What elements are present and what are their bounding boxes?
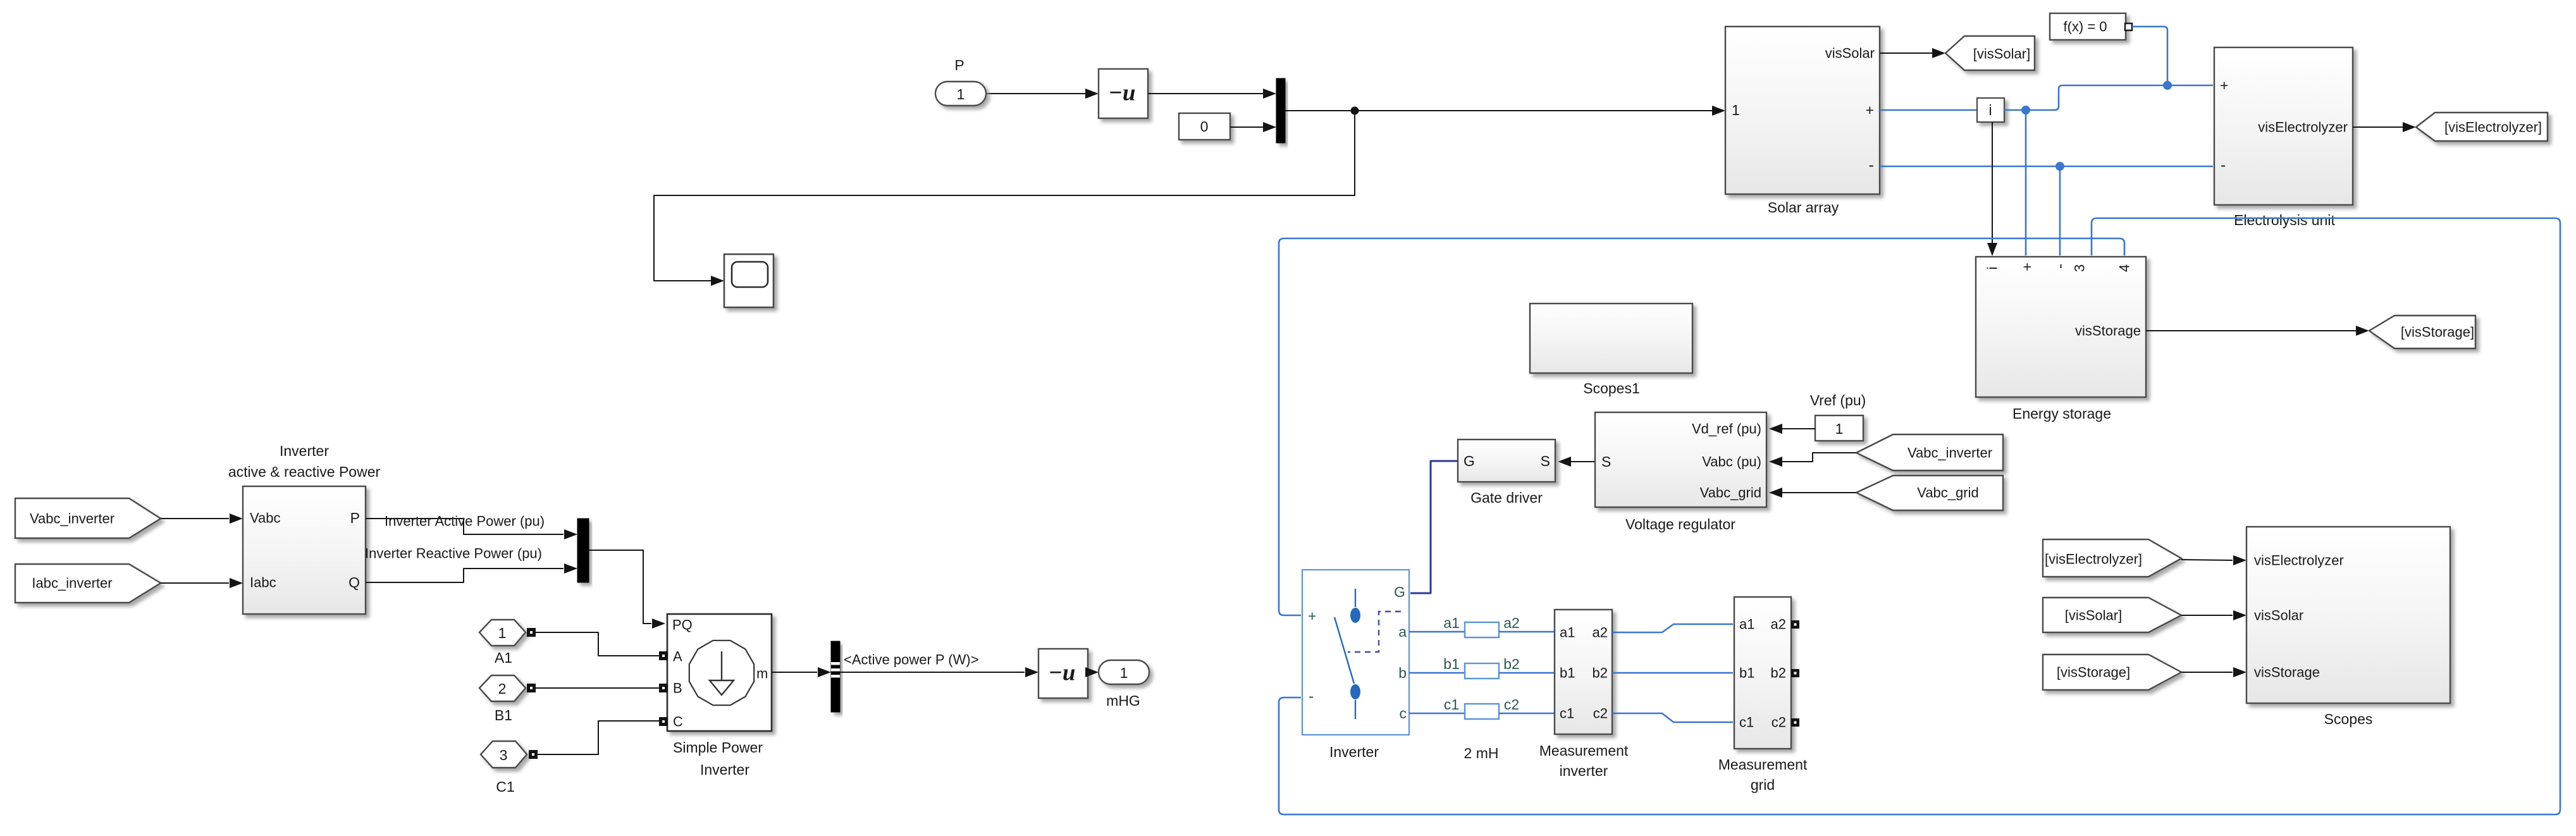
- wire inductor a to measurement inverter: [1499, 631, 1555, 633]
- svg-text:Electrolysis unit: Electrolysis unit: [2234, 212, 2335, 228]
- wire B1 to SPI B: [535, 687, 663, 689]
- svg-text:i: i: [1988, 102, 1992, 118]
- block Measurement inverter: [1555, 610, 1612, 734]
- wire P inport to gain: [986, 93, 1097, 94]
- wire Vabc_inverter to block: [161, 518, 229, 519]
- inductor b 2mH: [1465, 663, 1499, 679]
- svg-text:Iabc: Iabc: [250, 575, 276, 591]
- svg-text:−u: −u: [1049, 660, 1076, 686]
- wire constant to mux: [1230, 126, 1275, 128]
- svg-text:1: 1: [1732, 102, 1740, 118]
- block Inverter: [1302, 570, 1409, 735]
- wire m to demux: [772, 672, 817, 673]
- svg-text:S: S: [1541, 453, 1550, 469]
- goto tag [visSolar]: [1945, 36, 2035, 70]
- svg-text:Vabc_grid: Vabc_grid: [1700, 485, 1761, 501]
- wire inverter c to inductor: [1409, 713, 1465, 715]
- wire Vref to Vd_ref: [1782, 428, 1815, 429]
- svg-text:-: -: [2221, 156, 2226, 174]
- svg-text:Vabc_grid: Vabc_grid: [1917, 485, 1978, 501]
- svg-text:c1: c1: [1560, 706, 1574, 722]
- block Simple Power Inverter: [667, 614, 772, 731]
- svg-text:c2: c2: [1593, 706, 1608, 722]
- from tag Iabc_inverter: [15, 564, 161, 603]
- svg-text:visElectrolyzer: visElectrolyzer: [2254, 553, 2344, 569]
- wire inductor b to measurement inverter: [1499, 672, 1555, 674]
- svg-text:B1: B1: [495, 707, 512, 723]
- svg-text:+: +: [1308, 608, 1316, 624]
- svg-text:a2: a2: [1503, 615, 1520, 631]
- svg-text:mHG: mHG: [1106, 692, 1140, 709]
- svg-text:-: -: [2051, 264, 2069, 269]
- wire visSolar to goto: [1880, 52, 1933, 54]
- constant Vref 1: [1815, 415, 1863, 441]
- svg-text:Inverter: Inverter: [280, 443, 329, 459]
- svg-text:a1: a1: [1560, 625, 1575, 641]
- svg-text:Q: Q: [348, 574, 360, 591]
- svg-text:PQ: PQ: [672, 617, 693, 633]
- wire inductor c to measurement inverter: [1499, 713, 1555, 715]
- inport P (1): [935, 82, 986, 106]
- block Energy storage: [1976, 257, 2146, 397]
- mux left: [577, 519, 589, 582]
- wire junction to scope: [654, 111, 1355, 281]
- svg-text:4: 4: [2117, 264, 2133, 272]
- svg-text:C1: C1: [496, 778, 514, 795]
- svg-text:a2: a2: [1771, 617, 1786, 632]
- from tag [visSolar]: [2043, 598, 2181, 632]
- wire plus junction down to storage port: [2025, 110, 2027, 255]
- wire Q output to mux: [366, 569, 564, 582]
- svg-text:Scopes1: Scopes1: [1583, 380, 1640, 396]
- svg-text:P: P: [954, 57, 964, 73]
- svg-text:[visStorage]: [visStorage]: [2057, 665, 2130, 680]
- svg-text:Inverter: Inverter: [1329, 744, 1379, 760]
- wire mux to Solar array: [1285, 110, 1724, 111]
- wire i measurement to storage: [1992, 122, 1993, 253]
- svg-text:b1: b1: [1443, 656, 1460, 672]
- svg-text:b2: b2: [1771, 665, 1786, 681]
- block Electrolysis unit: [2214, 47, 2353, 205]
- inverter gate dashed line: [1348, 612, 1401, 652]
- wire visSolar tag to Scopes: [2181, 615, 2233, 616]
- from tag [visElectrolyzer]: [2043, 539, 2181, 577]
- svg-text:Vabc: Vabc: [250, 510, 281, 526]
- svg-text:2 mH: 2 mH: [1464, 745, 1499, 761]
- wire visStorage to goto: [2146, 330, 2357, 331]
- svg-text:visElectrolyzer: visElectrolyzer: [2258, 120, 2348, 135]
- svg-text:Voltage regulator: Voltage regulator: [1625, 516, 1735, 532]
- block Scopes1: [1530, 304, 1692, 373]
- block Gate driver: [1458, 440, 1555, 482]
- svg-text:b2: b2: [1593, 665, 1608, 681]
- wire solar minus to electrolyzer: [1880, 166, 2213, 168]
- wire gain to mux: [1148, 93, 1275, 94]
- big loop wire storage port4 to inverter plus: [1279, 238, 2124, 615]
- goto tag [visElectrolyzer]: [2416, 113, 2548, 141]
- wire Vabc_grid tag to regulator: [1782, 492, 1856, 493]
- svg-text:m: m: [756, 666, 768, 682]
- svg-text:-: -: [1869, 156, 1874, 174]
- junction node: [1351, 107, 1359, 115]
- svg-text:c2: c2: [1504, 696, 1519, 713]
- svg-text:G: G: [1394, 584, 1405, 600]
- svg-text:[visElectrolyzer]: [visElectrolyzer]: [2045, 551, 2142, 567]
- svg-text:Simple Power: Simple Power: [673, 739, 763, 756]
- svg-text:c1: c1: [1444, 696, 1459, 713]
- wire Vabc_inverter tag to Vabc pu: [1782, 453, 1856, 462]
- inductor a 2mH: [1465, 622, 1499, 637]
- wire P output to mux: [366, 519, 564, 534]
- svg-text:Inverter: Inverter: [700, 761, 749, 778]
- svg-text:b1: b1: [1739, 665, 1754, 681]
- svg-text:1: 1: [498, 625, 507, 641]
- svg-text:inverter: inverter: [1560, 763, 1608, 779]
- wire gate driver G to inverter gate: [1410, 461, 1458, 593]
- svg-text:-: -: [1309, 687, 1314, 705]
- big loop wire inverter minus to storage port3: [1279, 218, 2560, 814]
- svg-text:0: 0: [1200, 118, 1209, 135]
- block Inverter active & reactive Power: [243, 486, 366, 614]
- svg-text:A: A: [673, 649, 682, 665]
- wire demux to gain mHG: [840, 672, 1025, 673]
- svg-text:c: c: [1400, 705, 1407, 722]
- svg-text:P: P: [350, 510, 360, 526]
- block Solar array: [1725, 27, 1880, 194]
- wire visStorage tag to Scopes: [2181, 672, 2233, 673]
- wire visElectrolyzer to goto: [2353, 126, 2403, 128]
- block Measurement grid: [1734, 597, 1791, 749]
- wire voltage regulator S to gate driver: [1569, 461, 1595, 462]
- junction plus to storage: [2021, 106, 2030, 114]
- svg-text:b2: b2: [1503, 656, 1520, 672]
- svg-text:Vabc (pu): Vabc (pu): [1702, 454, 1761, 470]
- svg-text:3: 3: [2072, 264, 2088, 272]
- svg-text:a1: a1: [1443, 615, 1460, 631]
- svg-text:+: +: [2019, 262, 2035, 271]
- svg-text:active & reactive Power: active & reactive Power: [228, 464, 381, 480]
- svg-text:[visSolar]: [visSolar]: [2065, 608, 2122, 624]
- inductor c 2mH: [1465, 704, 1499, 719]
- svg-text:Vd_ref (pu): Vd_ref (pu): [1692, 421, 1761, 437]
- from tag [visStorage]: [2043, 655, 2181, 690]
- block f(x)=0: [2050, 13, 2126, 40]
- from tag Vabc_inverter right: [1856, 434, 2003, 470]
- connection port C1: [481, 741, 527, 768]
- svg-text:Vabc_inverter: Vabc_inverter: [30, 511, 114, 527]
- block Scopes: [2246, 527, 2450, 703]
- svg-text:C: C: [673, 714, 683, 730]
- svg-text:Iabc_inverter: Iabc_inverter: [32, 575, 112, 591]
- wire Iabc_inverter to block: [161, 582, 229, 584]
- svg-text:a: a: [1398, 624, 1407, 640]
- svg-text:visStorage: visStorage: [2075, 323, 2141, 339]
- wire minus junction down to storage port: [2059, 166, 2061, 255]
- svg-text:S: S: [1601, 453, 1611, 470]
- svg-text:1: 1: [957, 86, 965, 102]
- svg-text:1: 1: [1120, 665, 1128, 681]
- svg-text:3: 3: [500, 747, 508, 763]
- svg-text:1: 1: [1835, 421, 1844, 437]
- wire inverter b to inductor: [1409, 672, 1465, 674]
- wire i to plus junction: [2004, 85, 2213, 110]
- svg-text:visSolar: visSolar: [2254, 608, 2303, 624]
- svg-text:Inverter Active Power (pu): Inverter Active Power (pu): [385, 513, 545, 529]
- wire meas inverter b2 to grid b1: [1612, 672, 1733, 674]
- inverter switch icon: [1334, 589, 1355, 719]
- svg-text:[visSolar]: [visSolar]: [1973, 46, 2030, 62]
- svg-text:c2: c2: [1772, 715, 1786, 730]
- wire mux to PQ: [589, 550, 651, 624]
- demux bus bar: [831, 641, 840, 712]
- svg-text:A1: A1: [495, 649, 512, 666]
- svg-text:Energy storage: Energy storage: [2012, 405, 2111, 422]
- wire solar plus to i block: [1880, 109, 1977, 111]
- block Voltage regulator: [1595, 412, 1766, 507]
- SPI source circle: [689, 641, 754, 705]
- svg-text:a1: a1: [1739, 617, 1754, 632]
- svg-text:+: +: [1866, 102, 1874, 118]
- svg-text:Measurement: Measurement: [1718, 756, 1808, 773]
- svg-text:i: i: [1985, 267, 2000, 270]
- gain -u 2: [1038, 649, 1088, 698]
- svg-text:c1: c1: [1739, 715, 1754, 730]
- svg-text:a2: a2: [1593, 625, 1608, 641]
- wire f(x) to electrolyzer plus net: [2132, 27, 2167, 85]
- connection port B1: [479, 675, 526, 701]
- outport mHG (1): [1099, 660, 1149, 684]
- svg-text:Vabc_inverter: Vabc_inverter: [1907, 445, 1992, 461]
- svg-text:[visElectrolyzer]: [visElectrolyzer]: [2444, 120, 2542, 135]
- svg-text:+: +: [2220, 77, 2228, 94]
- gain -u: [1099, 69, 1148, 118]
- constant 0: [1179, 113, 1230, 140]
- goto tag [visStorage]: [2369, 316, 2475, 348]
- svg-text:f(x) = 0: f(x) = 0: [2063, 19, 2107, 35]
- wire C1 to SPI C: [537, 721, 663, 754]
- svg-text:2: 2: [498, 680, 507, 697]
- wire gain to outport mHG: [1086, 672, 1088, 673]
- svg-text:−u: −u: [1109, 80, 1136, 106]
- wire A1 to SPI A: [535, 632, 663, 656]
- svg-text:b: b: [1398, 665, 1407, 681]
- from tag Vabc_inverter left: [15, 498, 161, 538]
- wire meas inverter c2 to grid c1: [1612, 713, 1733, 722]
- svg-text:B: B: [673, 680, 682, 696]
- mux top: [1276, 78, 1285, 143]
- svg-text:b1: b1: [1560, 665, 1575, 681]
- current sensor i: [1977, 98, 2004, 122]
- wire visElectrolyzer tag to Scopes: [2181, 560, 2233, 560]
- svg-text:Inverter Reactive Power (pu): Inverter Reactive Power (pu): [365, 546, 542, 562]
- svg-text:[visStorage]: [visStorage]: [2401, 324, 2474, 340]
- junction fx net: [2163, 81, 2172, 90]
- svg-text:Vref (pu): Vref (pu): [1810, 392, 1866, 409]
- connection port A1: [479, 620, 526, 646]
- svg-text:Scopes: Scopes: [2324, 711, 2373, 727]
- svg-text:Solar array: Solar array: [1768, 199, 1839, 216]
- svg-text:Gate driver: Gate driver: [1470, 489, 1543, 506]
- wire meas inverter a2 to grid a1: [1612, 624, 1733, 632]
- from tag Vabc_grid: [1856, 476, 2003, 510]
- svg-text:<Active power P (W)>: <Active power P (W)>: [844, 652, 979, 668]
- svg-text:visStorage: visStorage: [2254, 665, 2320, 680]
- svg-text:Measurement: Measurement: [1539, 742, 1629, 759]
- svg-text:G: G: [1464, 453, 1475, 469]
- svg-text:grid: grid: [1751, 777, 1775, 793]
- wire inverter a to inductor: [1409, 631, 1465, 633]
- scope block: [724, 254, 773, 307]
- svg-text:visSolar: visSolar: [1825, 46, 1875, 61]
- junction minus to storage: [2055, 162, 2064, 171]
